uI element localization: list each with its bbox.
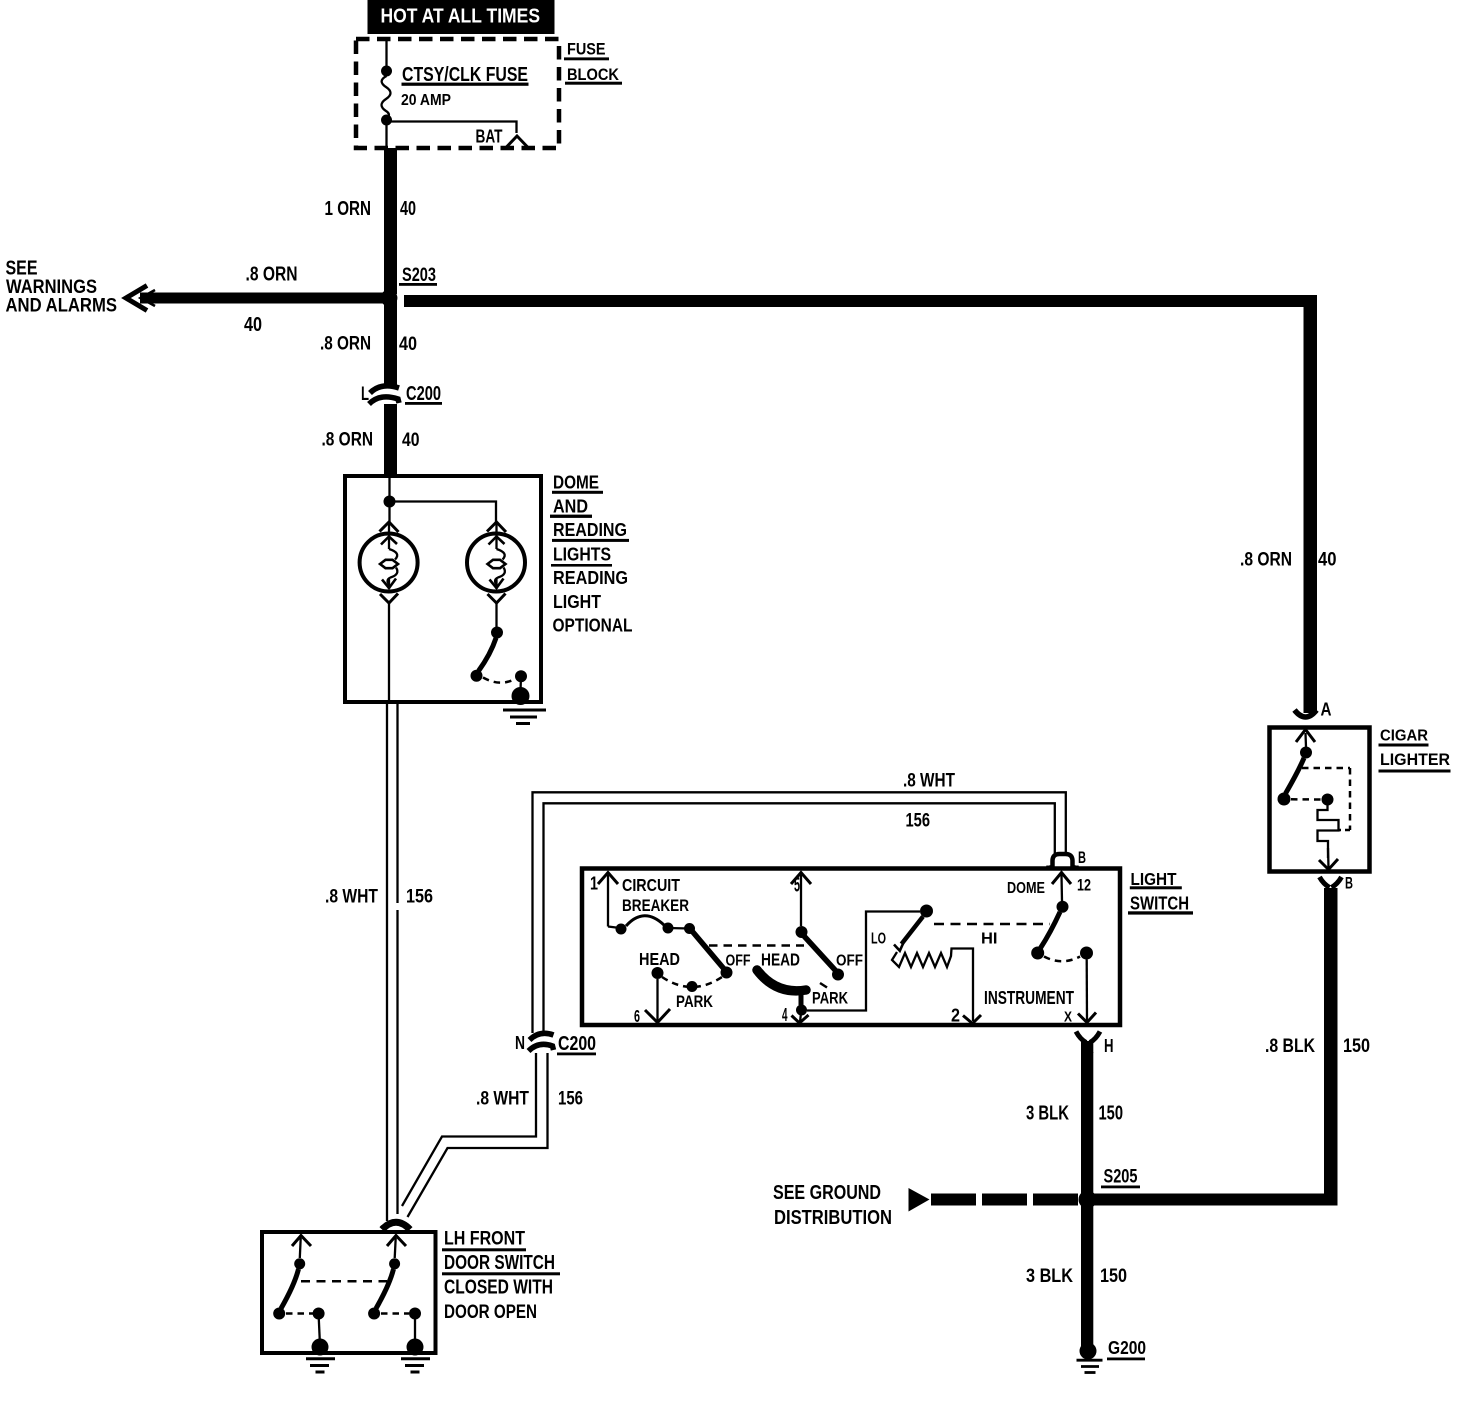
svg-text:5: 5 — [794, 875, 800, 897]
svg-text:DISTRIBUTION: DISTRIBUTION — [774, 1207, 892, 1229]
dome and reading lights box — [345, 476, 541, 702]
wire 3 BLK 150 H to S205 — [1081, 1052, 1093, 1196]
rheostat resistor — [892, 949, 973, 1022]
wire C200 N down to door switch — [402, 1053, 536, 1206]
HEAD contact — [652, 967, 664, 979]
lighter switch pivot — [1300, 747, 1312, 759]
svg-text:LO: LO — [871, 931, 886, 948]
svg-text:BREAKER: BREAKER — [622, 897, 689, 915]
reading lamp — [467, 522, 525, 603]
svg-text:.8 ORN: .8 ORN — [246, 264, 298, 286]
dashed link — [286, 1312, 313, 1315]
pin B terminal — [1319, 859, 1338, 870]
underline DOOR SWITCH — [442, 1272, 560, 1275]
dashed arc head park off — [662, 977, 722, 987]
lighter blade — [1286, 758, 1305, 794]
arrowhead ground distribution — [909, 1188, 930, 1212]
dashed link to dome blade — [934, 923, 1050, 926]
ground G200 — [1080, 1343, 1097, 1360]
node top of fuse — [381, 66, 392, 77]
wire into box — [388, 478, 390, 522]
node bottom of fuse — [381, 115, 392, 126]
inline connector above door switch — [382, 1222, 410, 1229]
svg-text:.8 WHT: .8 WHT — [325, 886, 378, 908]
underline C200 — [557, 1053, 596, 1056]
arrowhead left — [126, 286, 147, 311]
svg-text:40: 40 — [399, 333, 417, 355]
dashed housing bottom — [1338, 829, 1350, 832]
svg-text:G200: G200 — [1108, 1337, 1146, 1358]
wire branch to reading lamp — [390, 502, 497, 523]
wire into fuse — [385, 41, 387, 71]
svg-text:SEE GROUND: SEE GROUND — [773, 1182, 881, 1204]
dashed housing right — [1349, 768, 1352, 830]
svg-text:6: 6 — [634, 1006, 640, 1026]
svg-text:40: 40 — [400, 198, 416, 220]
right pin terminal — [387, 1236, 406, 1247]
svg-text:156: 156 — [406, 886, 433, 908]
wire to BAT terminal — [389, 122, 517, 134]
svg-text:INSTRUMENT: INSTRUMENT — [984, 988, 1074, 1008]
switch 2 pivot — [796, 926, 808, 938]
svg-text:12: 12 — [1077, 877, 1091, 895]
right ground stud — [407, 1339, 424, 1356]
PARK contact — [687, 981, 698, 992]
lighter contact — [1278, 793, 1291, 806]
svg-text:HEAD: HEAD — [761, 950, 800, 970]
svg-text:B: B — [1078, 848, 1086, 867]
connector C200 pin N — [530, 1033, 554, 1040]
fuse block dashed box — [356, 39, 559, 148]
wire S203 to cigar lighter right run — [404, 295, 1315, 307]
svg-text:CLOSED WITH: CLOSED WITH — [444, 1277, 553, 1299]
left switch blade — [281, 1269, 299, 1309]
PARK contact pin 4 — [796, 1005, 807, 1016]
left ground stud — [312, 1339, 329, 1356]
svg-text:READING: READING — [553, 568, 628, 588]
wire S205 to cigar lighter B — [1092, 1194, 1338, 1206]
svg-text:4: 4 — [782, 1005, 788, 1025]
wire C200 to dome lights — [384, 404, 397, 477]
underline S203 — [399, 283, 437, 286]
underline LIGHTER — [1379, 770, 1451, 773]
element contact — [1322, 794, 1334, 806]
wire dome lamp down inside box — [388, 603, 390, 700]
dome lamp — [360, 522, 418, 603]
svg-text:READING: READING — [553, 520, 627, 540]
svg-text:1 ORN: 1 ORN — [325, 198, 372, 220]
dashed arc — [1044, 957, 1080, 962]
svg-text:S203: S203 — [402, 265, 436, 286]
svg-text:3 BLK: 3 BLK — [1026, 1103, 1069, 1125]
circuit breaker — [616, 924, 627, 935]
svg-text:.8 ORN: .8 ORN — [1240, 549, 1292, 571]
svg-text:40: 40 — [244, 314, 262, 336]
BAT terminal chevron — [506, 136, 528, 148]
svg-text:OFF: OFF — [836, 953, 863, 970]
ground dome box — [503, 710, 546, 724]
svg-text:.8 ORN: .8 ORN — [322, 429, 374, 451]
svg-text:C200: C200 — [558, 1033, 596, 1055]
left pin terminal — [292, 1236, 311, 1247]
svg-text:.8 ORN: .8 ORN — [320, 333, 371, 355]
wire S203 to C200 — [384, 298, 397, 385]
svg-text:PARK: PARK — [812, 990, 848, 1008]
banner HOT AT ALL TIMES — [368, 0, 555, 34]
splice S205 — [1079, 1191, 1097, 1209]
underline FUSE — [564, 57, 609, 60]
underline LIGHT — [1130, 886, 1182, 889]
svg-text:S205: S205 — [1104, 1167, 1138, 1188]
right contact — [368, 1308, 380, 1320]
left ground contact — [313, 1308, 325, 1320]
wire fuse to box bottom — [385, 120, 387, 148]
svg-text:L: L — [361, 384, 369, 405]
wiper pivot — [920, 905, 933, 918]
pin 12 terminal — [1052, 873, 1071, 885]
svg-text:C200: C200 — [406, 383, 441, 405]
svg-text:40: 40 — [402, 429, 420, 451]
svg-text:2: 2 — [951, 1006, 960, 1026]
connector B above light switch — [1053, 854, 1073, 867]
svg-text:156: 156 — [558, 1088, 583, 1110]
light switch box — [582, 869, 1120, 1026]
wire S205 to G200 — [1081, 1205, 1093, 1348]
svg-text:DOME: DOME — [553, 473, 599, 493]
switch blade 2 — [804, 936, 836, 971]
connector B below cigar lighter — [1320, 877, 1330, 888]
pin 4 terminal — [800, 1013, 801, 1022]
svg-text:150: 150 — [1100, 1266, 1127, 1287]
right ground contact — [409, 1308, 421, 1320]
underline LH FRONT — [442, 1248, 526, 1251]
underlines DOME AND READING LIGHTS — [550, 491, 629, 567]
dashed link — [1291, 798, 1321, 801]
right switch blade — [376, 1269, 394, 1309]
dashed link — [381, 1312, 409, 1315]
wire 1 ORN 40 fuse to S203 — [384, 148, 397, 294]
right switch pivot — [389, 1258, 400, 1269]
junction node — [384, 496, 396, 508]
underline SWITCH — [1128, 911, 1193, 914]
connector H below light switch — [1076, 1032, 1086, 1043]
svg-text:LIGHTS: LIGHTS — [553, 545, 611, 565]
svg-text:20 AMP: 20 AMP — [401, 92, 451, 109]
svg-text:1: 1 — [590, 874, 598, 894]
svg-text:N: N — [515, 1033, 525, 1053]
svg-text:CIGAR: CIGAR — [1380, 728, 1428, 745]
fuse CTSY/CLK 20 AMP element — [382, 76, 391, 118]
svg-text:.8 WHT: .8 WHT — [903, 770, 955, 792]
svg-text:H: H — [1104, 1036, 1114, 1056]
pin X contact — [1080, 947, 1093, 960]
svg-text:40: 40 — [1318, 549, 1337, 571]
underline CIGAR — [1379, 744, 1429, 747]
connector A above cigar lighter — [1295, 710, 1317, 717]
svg-text:OFF: OFF — [726, 953, 751, 970]
pin X terminal — [1078, 1013, 1096, 1023]
svg-text:150: 150 — [1099, 1103, 1124, 1125]
svg-text:AND ALARMS: AND ALARMS — [6, 295, 118, 317]
svg-text:A: A — [1321, 700, 1332, 720]
pin A terminal — [1296, 730, 1315, 743]
svg-text:B: B — [1345, 875, 1353, 893]
left contact — [273, 1308, 285, 1320]
svg-text:LH FRONT: LH FRONT — [444, 1228, 525, 1250]
svg-text:OPTIONAL: OPTIONAL — [553, 616, 633, 636]
LH front door switch box — [262, 1232, 436, 1353]
wire .8 WHT 156 dome to door switch — [386, 702, 388, 1221]
dome switch pivot — [1057, 901, 1069, 913]
svg-text:PARK: PARK — [676, 992, 714, 1011]
ground symbol left — [306, 1359, 335, 1372]
ground symbol right — [401, 1359, 430, 1372]
heavy park blade — [757, 970, 806, 991]
left switch pivot — [294, 1258, 305, 1269]
svg-text:150: 150 — [1343, 1035, 1370, 1057]
underline BLOCK — [565, 82, 622, 85]
dash off-park — [820, 983, 827, 988]
underline C200 — [405, 402, 442, 405]
pin 1 terminal — [598, 873, 618, 885]
svg-text:DOOR SWITCH: DOOR SWITCH — [444, 1252, 555, 1274]
svg-text:X: X — [1064, 1009, 1072, 1026]
svg-text:HOT AT ALL TIMES: HOT AT ALL TIMES — [381, 6, 541, 28]
svg-text:DOOR OPEN: DOOR OPEN — [444, 1301, 537, 1323]
svg-text:BAT: BAT — [476, 127, 503, 147]
dashed housing top — [1302, 767, 1350, 770]
pin 2 terminal — [963, 1015, 981, 1024]
svg-text:FUSE: FUSE — [567, 41, 606, 59]
switch blade 1 — [692, 931, 725, 970]
svg-text:3 BLK: 3 BLK — [1026, 1266, 1073, 1287]
wire .8 WHT 156 C200 N up and over to light switch B — [533, 792, 1066, 1033]
cigar lighter box — [1270, 728, 1370, 872]
svg-text:.8 BLK: .8 BLK — [1265, 1035, 1315, 1057]
svg-text:SWITCH: SWITCH — [1130, 893, 1189, 914]
heating element — [1318, 805, 1339, 858]
svg-text:HI: HI — [981, 931, 998, 948]
svg-text:.8 WHT: .8 WHT — [476, 1088, 529, 1110]
svg-text:AND: AND — [553, 497, 588, 517]
svg-text:DOME: DOME — [1007, 880, 1045, 897]
wire pin 6 — [656, 979, 658, 1021]
svg-text:156: 156 — [906, 810, 931, 832]
wire to SEE WARNINGS AND ALARMS — [140, 293, 383, 304]
wire down to cigar lighter — [1304, 295, 1318, 713]
mechanical link dashed — [709, 944, 804, 947]
dome contact — [1031, 947, 1044, 960]
svg-text:LIGHT: LIGHT — [1131, 869, 1177, 889]
svg-text:LIGHTER: LIGHTER — [1380, 751, 1450, 769]
wire park to rheostat wiper — [807, 912, 920, 1011]
svg-text:HEAD: HEAD — [639, 949, 680, 969]
mechanical link dashed — [301, 1280, 387, 1283]
pin 5 terminal — [791, 873, 811, 885]
underline S205 — [1101, 1186, 1140, 1189]
splice S203 — [381, 290, 398, 307]
underline CTSY/CLK FUSE — [402, 83, 529, 86]
pin 6 terminal — [645, 1009, 670, 1023]
dome switch blade — [1041, 912, 1061, 948]
svg-text:CIRCUIT: CIRCUIT — [622, 875, 680, 895]
svg-text:CTSY/CLK FUSE: CTSY/CLK FUSE — [402, 64, 528, 86]
underline G200 — [1107, 1358, 1145, 1361]
dashed wire to ground distribution — [931, 1194, 1079, 1206]
svg-text:BLOCK: BLOCK — [567, 66, 619, 84]
svg-text:LIGHT: LIGHT — [553, 592, 601, 612]
reading light switch — [471, 603, 530, 705]
connector C200 pin L — [370, 386, 399, 393]
wiper blade — [902, 917, 924, 945]
